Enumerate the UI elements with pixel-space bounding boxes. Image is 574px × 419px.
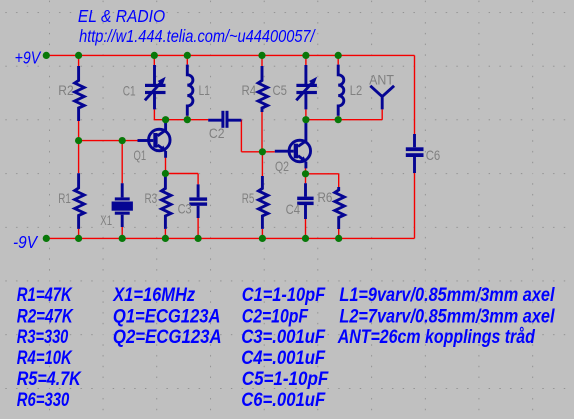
svg-text:+9V: +9V: [15, 47, 42, 67]
junction Q2 base node: [259, 148, 266, 155]
svg-text:Q1=ECG123A: Q1=ECG123A: [113, 306, 221, 327]
svg-text:Q2=ECG123A: Q2=ECG123A: [113, 327, 222, 348]
svg-text:L1=9varv/0.85mm/3mm axel: L1=9varv/0.85mm/3mm axel: [339, 285, 555, 306]
capacitor C3: [189, 184, 207, 218]
wire L1 bottom: [186, 116, 188, 120]
wire R6 bottom: [338, 229, 340, 238]
svg-text:C4: C4: [286, 201, 301, 217]
junction Q1 emitter node: [162, 170, 169, 177]
junction X1 bottom: [119, 235, 126, 242]
junction Q2 emitter node: [302, 170, 309, 177]
junction X1 top node: [119, 137, 126, 144]
junction L1 top: [184, 52, 191, 59]
wire +9V top rail: [46, 54, 414, 56]
wire R3 bottom: [164, 229, 166, 239]
wire right rail upper (to C6): [414, 55, 416, 134]
svg-text:Q1: Q1: [134, 147, 147, 163]
svg-text:R4=10K: R4=10K: [17, 348, 73, 369]
wire R2 top: [78, 55, 80, 66]
wire C1 bottom corner: [153, 109, 155, 119]
svg-text:R6: R6: [318, 189, 333, 205]
wire Q2 emitter down: [305, 168, 307, 174]
svg-text:R5: R5: [242, 190, 255, 206]
wire C3 bottom: [197, 218, 199, 238]
svg-text:C3: C3: [178, 201, 192, 217]
wire R1 bottom: [78, 229, 80, 239]
junction Q2 collector: [302, 116, 309, 123]
wire X1 bottom: [121, 227, 123, 239]
wire C1 top: [153, 55, 155, 65]
svg-text:C6: C6: [426, 147, 441, 163]
svg-text:R6=330: R6=330: [17, 390, 70, 411]
svg-text:L2=7varv/0.85mm/3mm axel: L2=7varv/0.85mm/3mm axel: [339, 306, 555, 327]
resistor R2: [75, 66, 85, 121]
junction C3 bottom: [195, 235, 202, 242]
junction C4 bottom: [302, 235, 309, 242]
junction R5 bottom: [259, 235, 266, 242]
wire R1 top: [78, 141, 80, 174]
junction -9V start: [43, 235, 50, 242]
junction +9V start: [43, 52, 50, 59]
svg-text:L1: L1: [199, 82, 210, 98]
capacitor C4: [297, 183, 313, 219]
wire emitter node to C3: [165, 173, 198, 175]
svg-text:Q2: Q2: [275, 158, 289, 174]
resistor R1: [75, 173, 85, 229]
svg-text:C3=.001uF: C3=.001uF: [241, 327, 326, 348]
wire L1 top: [186, 55, 188, 64]
svg-text:-9V: -9V: [13, 232, 39, 252]
wire emitter node to R6: [306, 173, 339, 175]
crystal X1: [112, 183, 133, 227]
svg-text:R3: R3: [145, 190, 158, 206]
wire C4 bottom: [305, 219, 307, 238]
svg-text:R5=4.7K: R5=4.7K: [17, 369, 82, 390]
wire R6 top: [338, 174, 340, 187]
transistor Q1: [138, 120, 171, 158]
wire C5 top: [305, 55, 307, 65]
wire L2 bottom: [337, 116, 339, 120]
wire L2 top: [337, 55, 339, 64]
svg-text:C1=1-10pF: C1=1-10pF: [242, 285, 327, 306]
resistor R3: [162, 176, 172, 229]
svg-text:R3=330: R3=330: [17, 327, 69, 348]
capacitor C5 (variable): [296, 65, 317, 109]
resistor R5: [259, 176, 269, 229]
svg-text:ANT: ANT: [369, 71, 394, 87]
wire R2 bottom to base node: [78, 121, 80, 141]
inductor L2: [338, 65, 344, 116]
wire R5 bottom: [261, 229, 263, 239]
junction R3 bottom: [162, 235, 169, 242]
wire to Q2 base: [241, 151, 274, 153]
svg-text:http://w1.444.telia.com/~u4440: http://w1.444.telia.com/~u44400057/: [79, 26, 316, 46]
wire R3 top: [164, 174, 166, 177]
wire R4 top: [261, 55, 263, 66]
transistor Q2: [275, 120, 311, 169]
svg-text:C4=.001uF: C4=.001uF: [241, 348, 326, 369]
wire C2 right corner down: [240, 120, 242, 152]
wire Q1 base rail: [79, 140, 138, 142]
junction R2 top: [75, 52, 82, 59]
junction C1 top: [151, 52, 158, 59]
wire C4 top: [305, 174, 307, 184]
capacitor C1 (variable): [145, 65, 166, 109]
junction R6 bottom: [335, 235, 342, 242]
capacitor C6: [406, 134, 424, 173]
svg-text:C5=1-10pF: C5=1-10pF: [242, 369, 330, 390]
svg-text:R2=47K: R2=47K: [17, 306, 74, 327]
svg-text:L2: L2: [350, 82, 363, 98]
antenna ANT: [370, 86, 394, 110]
resistor R4: [258, 66, 268, 112]
junction L2 top: [335, 52, 342, 59]
inductor L1: [187, 65, 193, 116]
wire right rail lower (C6 to -9V rail): [414, 173, 416, 238]
svg-text:R2: R2: [58, 82, 74, 98]
junction Q1 collector: [162, 116, 169, 123]
wire C5 bottom: [305, 109, 307, 119]
wire Q1 emitter down: [165, 158, 167, 174]
wire X1 top: [121, 141, 123, 184]
wire C3 top: [197, 174, 199, 185]
junction L2 bottom: [335, 116, 342, 123]
svg-text:C6=.001uF: C6=.001uF: [241, 390, 326, 411]
wire mid-left rail to C2: [154, 119, 209, 121]
wire -9V bottom rail: [46, 237, 414, 239]
junction R4 top: [258, 52, 265, 59]
svg-text:R4: R4: [242, 82, 257, 98]
wire antenna stem lower: [381, 109, 383, 119]
svg-text:ANT=26cm kopplings tråd: ANT=26cm kopplings tråd: [337, 327, 535, 348]
capacitor C2: [208, 111, 241, 128]
junction R2/R1 base node: [75, 137, 82, 144]
svg-text:EL & RADIO: EL & RADIO: [78, 6, 166, 26]
svg-text:C1: C1: [123, 82, 136, 98]
svg-text:R1: R1: [58, 190, 71, 206]
svg-text:C2=10pF: C2=10pF: [242, 306, 309, 327]
wire R5 top: [261, 152, 263, 176]
junction R1 bottom: [75, 235, 82, 242]
junction L1 bottom: [184, 116, 191, 123]
svg-text:X1: X1: [100, 212, 112, 228]
svg-text:C5: C5: [273, 82, 288, 98]
resistor R6: [335, 187, 345, 229]
svg-text:C2: C2: [209, 125, 225, 141]
svg-text:X1=16MHz: X1=16MHz: [112, 285, 195, 306]
wire mid-right rail to antenna: [306, 119, 382, 121]
junction C5 top: [302, 52, 309, 59]
svg-text:R1=47K: R1=47K: [17, 285, 73, 306]
wire R4 bottom to Q2 base node: [261, 112, 263, 152]
